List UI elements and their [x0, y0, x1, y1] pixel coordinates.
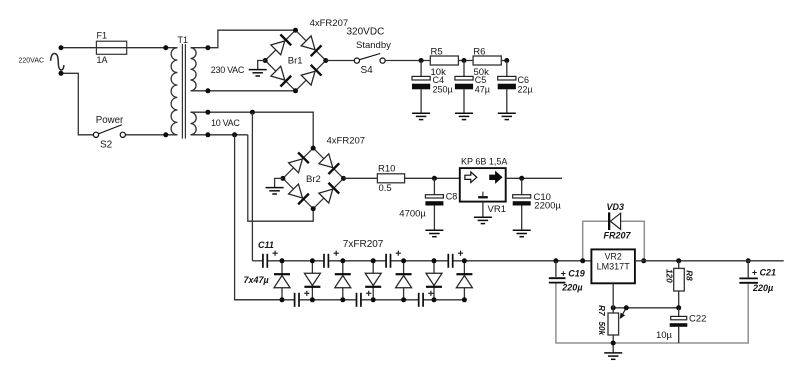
svg-text:47µ: 47µ	[475, 85, 490, 95]
svg-text:F1: F1	[97, 31, 108, 41]
svg-text:VR2: VR2	[605, 252, 622, 262]
svg-text:220µ: 220µ	[561, 283, 582, 293]
svg-text:10 VAC: 10 VAC	[211, 118, 240, 128]
svg-text:LM317T: LM317T	[597, 262, 631, 272]
svg-text:VD3: VD3	[607, 202, 625, 212]
svg-text:KP 6B 1,5A: KP 6B 1,5A	[461, 157, 507, 167]
svg-text:0.5: 0.5	[379, 183, 392, 194]
svg-text:50k: 50k	[597, 321, 606, 335]
svg-text:T1: T1	[178, 35, 189, 45]
svg-text:220VAC: 220VAC	[19, 57, 45, 64]
svg-text:+ C21: + C21	[752, 268, 776, 278]
svg-text:1A: 1A	[97, 55, 108, 65]
svg-text:C11: C11	[258, 240, 274, 250]
svg-text:10µ: 10µ	[656, 330, 673, 341]
svg-text:R7: R7	[597, 305, 606, 316]
svg-text:4700µ: 4700µ	[399, 208, 426, 219]
svg-text:7x47µ: 7x47µ	[244, 275, 269, 285]
svg-text:4xFR207: 4xFR207	[310, 18, 349, 29]
svg-text:120: 120	[665, 269, 674, 283]
svg-text:Standby: Standby	[356, 40, 391, 51]
svg-text:250µ: 250µ	[433, 85, 453, 95]
svg-text:S2: S2	[100, 139, 113, 150]
svg-text:220µ: 220µ	[752, 283, 773, 293]
svg-text:FR207: FR207	[604, 230, 632, 240]
svg-text:R5: R5	[431, 47, 443, 58]
svg-text:230 VAC: 230 VAC	[211, 65, 245, 75]
svg-text:C22: C22	[689, 313, 706, 324]
svg-text:320VDC: 320VDC	[347, 27, 385, 38]
svg-text:22µ: 22µ	[518, 85, 533, 95]
svg-text:R8: R8	[685, 270, 694, 281]
svg-text:2200µ: 2200µ	[534, 200, 561, 211]
svg-text:R10: R10	[378, 163, 395, 174]
svg-text:C8: C8	[446, 191, 458, 201]
svg-text:+ C19: + C19	[561, 268, 585, 278]
svg-text:R6: R6	[473, 47, 485, 58]
svg-text:Br1: Br1	[288, 56, 303, 67]
svg-text:7xFR207: 7xFR207	[343, 239, 384, 250]
svg-text:Power: Power	[96, 115, 124, 126]
svg-text:4xFR207: 4xFR207	[327, 136, 366, 147]
svg-text:S4: S4	[361, 65, 374, 76]
svg-text:VR1: VR1	[488, 204, 506, 215]
svg-text:Br2: Br2	[306, 174, 321, 185]
